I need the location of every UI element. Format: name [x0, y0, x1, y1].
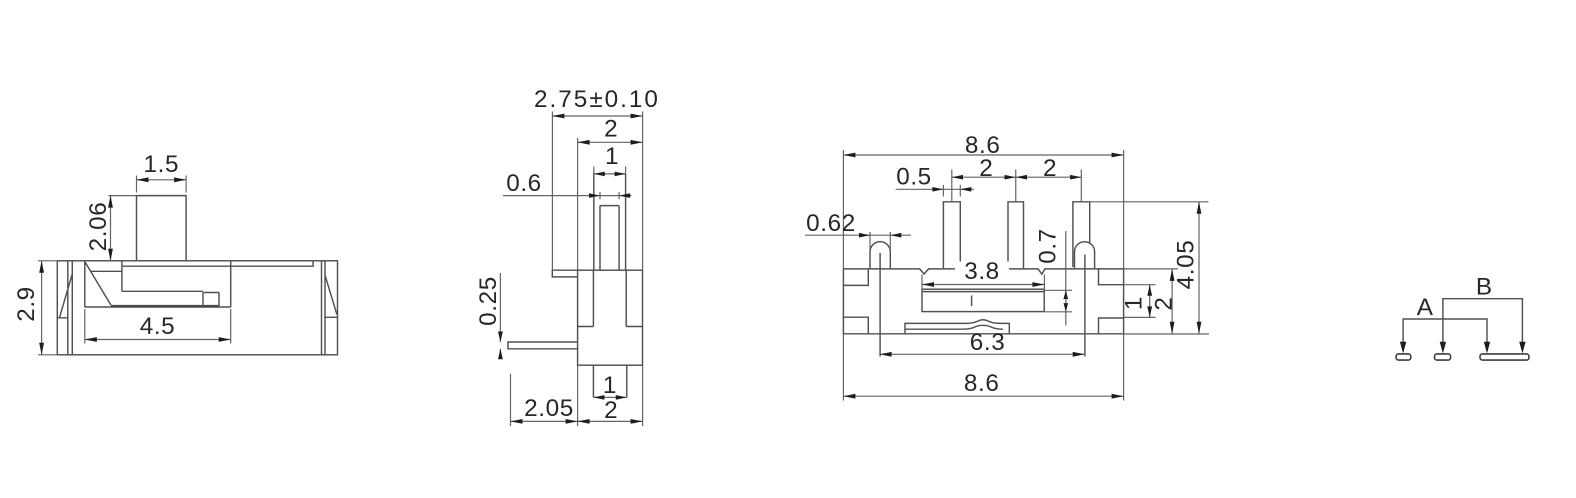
- svg-text:0.25: 0.25: [475, 276, 502, 326]
- svg-text:2.75±0.10: 2.75±0.10: [534, 86, 660, 113]
- left mounting dome: [870, 242, 890, 269]
- svg-text:6.3: 6.3: [970, 329, 1006, 356]
- svg-text:B: B: [1476, 274, 1493, 301]
- pin 3: [1073, 202, 1090, 267]
- dim 2.9: [38, 261, 57, 355]
- dim 1.5: [137, 176, 187, 193]
- bottom protrusion: [593, 365, 626, 397]
- wire A: [1403, 319, 1487, 351]
- corner notch bottom-right: [1099, 318, 1124, 334]
- svg-text:1: 1: [1120, 296, 1147, 310]
- dim 1 bottom (protrusion): [593, 396, 626, 398]
- svg-text:2.05: 2.05: [524, 395, 574, 422]
- pin 1: [943, 202, 960, 269]
- body: [578, 270, 643, 365]
- dim 0.7 (window height): [1044, 231, 1072, 326]
- svg-text:1: 1: [603, 372, 617, 399]
- body outline with top notches: [843, 269, 1123, 334]
- slider shelf: [90, 266, 219, 305]
- right dome center stub: [1084, 255, 1086, 357]
- wire B: [1443, 299, 1523, 351]
- dim 8.6 bottom: [843, 334, 1123, 401]
- dim 1 top (knob): [594, 167, 626, 174]
- corner notch bottom-left: [843, 317, 868, 334]
- arrow pin1: [1400, 342, 1406, 354]
- arrow common left: [1484, 342, 1490, 354]
- actuator knob: [137, 196, 187, 261]
- pad common: [1480, 354, 1529, 360]
- svg-text:A: A: [1417, 294, 1434, 321]
- svg-text:8.6: 8.6: [964, 370, 1000, 397]
- knob slot: [600, 206, 619, 271]
- corner notch top-left: [843, 269, 868, 286]
- left terminal: [57, 261, 72, 355]
- dim 0.6 (slot): [503, 192, 632, 199]
- dim 1 right: [1124, 285, 1156, 318]
- pad 2: [1435, 354, 1451, 360]
- top ledge step: [122, 261, 313, 266]
- corner notch top-right: [1099, 269, 1124, 285]
- dim 3.8 (window): [922, 275, 1044, 291]
- dim 2 right: [1124, 269, 1209, 334]
- dim 0.5 (pin width): [896, 185, 974, 197]
- slider window: [922, 289, 1044, 311]
- pin 2: [1008, 202, 1024, 269]
- left dome center stub: [879, 253, 881, 357]
- svg-text:4.05: 4.05: [1173, 240, 1200, 290]
- solder lead: [508, 342, 578, 349]
- dim 2.75+-0.10: [552, 112, 642, 271]
- svg-text:2: 2: [604, 116, 618, 143]
- dim 2.06: [109, 196, 137, 261]
- dim 6.3 (dome span): [880, 353, 1085, 355]
- svg-text:2.9: 2.9: [13, 286, 40, 322]
- base plate seam with dimple: [905, 320, 1009, 334]
- svg-text:4.5: 4.5: [140, 313, 176, 340]
- svg-text:2: 2: [979, 155, 993, 182]
- dim 0.62 (dome width): [805, 232, 911, 250]
- svg-text:0.62: 0.62: [806, 210, 856, 237]
- svg-text:2: 2: [1043, 155, 1057, 182]
- svg-text:0.6: 0.6: [506, 170, 542, 197]
- knob channel: [594, 174, 626, 270]
- dim 2-2 pins: [952, 170, 1082, 202]
- arrow common right: [1519, 342, 1525, 354]
- svg-text:0.5: 0.5: [896, 164, 932, 191]
- dim 8.6 top: [843, 150, 1123, 269]
- dim 4.05 right: [1090, 202, 1209, 334]
- dim 2 top: [578, 138, 643, 270]
- svg-text:1: 1: [605, 143, 619, 170]
- dim 2 bottom: [578, 365, 643, 426]
- hidden shaft in body: [578, 270, 643, 326]
- switch body outline: [57, 261, 337, 355]
- svg-text:2: 2: [604, 397, 618, 424]
- svg-text:2.06: 2.06: [85, 202, 112, 252]
- svg-text:2: 2: [1151, 296, 1178, 310]
- svg-text:3.8: 3.8: [964, 258, 1000, 285]
- dim 4.5: [85, 309, 231, 344]
- arrow pin2: [1440, 342, 1446, 354]
- cavity diagonal: [85, 262, 111, 305]
- dim 2.05: [511, 374, 578, 427]
- right terminal: [322, 261, 338, 355]
- contact plate thick line: [111, 305, 220, 307]
- left boss tab: [552, 270, 577, 277]
- svg-text:0.7: 0.7: [1035, 228, 1062, 264]
- recess cavity: [85, 261, 231, 307]
- right mounting dome: [1075, 242, 1095, 269]
- pad 1: [1396, 354, 1411, 360]
- svg-text:1.5: 1.5: [144, 151, 180, 178]
- dim 0.25 (lead): [499, 273, 501, 359]
